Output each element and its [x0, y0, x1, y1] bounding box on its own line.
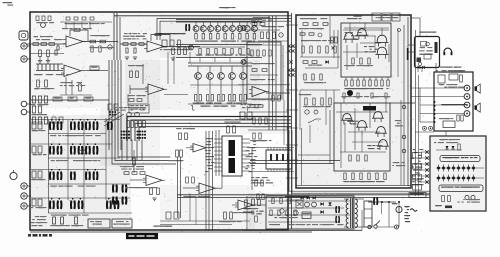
- out label smudge: [164, 226, 168, 227]
- power box bottom buses: [296, 184, 411, 186]
- power transistor group row1 a: [49, 122, 51, 131]
- bank-B emitter resistor pairs: [195, 95, 197, 102]
- power left wires: [300, 56, 340, 58]
- wire border verticals to bus: [289, 130, 430, 191]
- wire grid h6: [48, 212, 132, 214]
- op-amp U2A: [147, 41, 164, 52]
- capacitor pair row3 c: [70, 172, 72, 181]
- psu top text: [315, 195, 317, 196]
- transistor Q23: [377, 47, 387, 54]
- power left resistors: [302, 46, 304, 53]
- mid-right wires: [248, 111, 288, 113]
- wire psu left stub: [246, 196, 248, 230]
- transistors Q11-Q15: [195, 73, 202, 80]
- wire U2A out: [164, 46, 200, 48]
- wire bottom rule: [243, 229, 362, 231]
- resistor R5: [90, 40, 96, 43]
- capacitor C31: [312, 202, 317, 207]
- speaker box bottom connectors: [423, 126, 427, 130]
- input jack J3: [21, 56, 27, 62]
- bank-A emitter resistors: [195, 32, 197, 34]
- module B wires: [340, 103, 342, 168]
- fuse F1: [396, 206, 402, 212]
- wire stubs between boards: [288, 46, 296, 48]
- psu rails: [268, 200, 350, 202]
- IC U5 top parts: [227, 126, 230, 133]
- wire headphone top: [411, 17, 420, 19]
- wire fuse down: [398, 213, 400, 227]
- power inner wires: [300, 89, 340, 91]
- heatsink label box 2: [112, 219, 132, 228]
- module A inner labels: [351, 39, 354, 40]
- power left col extra2: [304, 74, 306, 80]
- wire ch-B input row: [120, 43, 147, 45]
- LED connector X column: [425, 150, 428, 153]
- bus bundle vertical: [108, 60, 110, 150]
- wire grid h5: [31, 197, 130, 199]
- wire U1A output: [83, 41, 118, 43]
- transistor Q22: [377, 35, 387, 42]
- left column parts r1: [32, 122, 36, 129]
- speaker label above box: [443, 67, 445, 68]
- bank-A left caps: [185, 24, 187, 31]
- parts under limiter: [240, 112, 245, 119]
- resistors under ladder: [37, 80, 40, 87]
- parts above U3A: [142, 64, 144, 84]
- op-amp U9: [238, 200, 253, 210]
- psu diodes: [320, 202, 323, 205]
- bank-B drops to bus: [197, 101, 199, 104]
- speaker jack SP2: [464, 94, 470, 100]
- IC U5 outline: [222, 136, 242, 176]
- driver module A box: [341, 23, 391, 77]
- main board bottom scan double line: [30, 231, 312, 233]
- transformer T1 leads: [344, 198, 349, 200]
- transformer T1 core: [350, 198, 352, 228]
- power upper-left parts: [303, 23, 308, 26]
- speaker box left pin column: [434, 101, 436, 103]
- scan tone wash midband: [125, 60, 260, 110]
- wire U3A input: [130, 88, 148, 90]
- resistor R25 vert: [178, 48, 181, 55]
- bus thick bundle to power board: [127, 117, 291, 142]
- scan tone wash led: [431, 137, 485, 210]
- wire U9 wiring: [253, 204, 266, 206]
- wire preamp lower: [30, 53, 64, 55]
- aux jack J5: [21, 109, 27, 115]
- power board right border double line: [407, 17, 409, 186]
- device table boxes: [372, 13, 381, 21]
- resistor R22: [139, 43, 144, 46]
- power transistor group row2 c: [85, 146, 87, 155]
- psu left parts: [252, 199, 255, 206]
- LED bottom parts: [442, 196, 445, 202]
- transistor Q17: [241, 26, 246, 31]
- resistor row E: [124, 172, 129, 175]
- bank-B label smudges: [193, 103, 195, 104]
- driver module B box: [334, 103, 390, 171]
- regulator block: [302, 212, 311, 219]
- scan tone wash bank: [160, 14, 260, 58]
- parts near U8: [186, 177, 189, 183]
- label smudge preamp A: [36, 36, 39, 37]
- wire mid bus: [30, 99, 109, 101]
- psu transistors: [280, 209, 284, 213]
- ch-B label smudges: [129, 33, 132, 34]
- transistor Q20: [345, 33, 354, 40]
- power left row2: [303, 61, 308, 64]
- black relay bar: [363, 106, 376, 111]
- power transistor group row2 a: [49, 146, 51, 155]
- label box VR-C: [84, 97, 93, 101]
- wire headphone feed: [408, 44, 415, 46]
- input jack J2: [21, 43, 27, 49]
- op-amp U8: [199, 183, 215, 194]
- IC U6 outline: [266, 150, 292, 169]
- wire long bus A: [177, 194, 430, 196]
- wire bus mid verticals2: [205, 131, 207, 231]
- mains text column: [405, 221, 408, 222]
- row1 labels: [74, 135, 77, 136]
- bus wires vertical pair top: [113, 13, 115, 60]
- parts right of U1A: [91, 46, 93, 52]
- transistor Q16: [241, 60, 246, 65]
- left block row 2: [32, 106, 35, 113]
- resistor ladder bank: [37, 64, 39, 71]
- note squiggle: [191, 105, 195, 110]
- wire grid h4: [48, 183, 130, 185]
- module A pin resistors: [345, 77, 347, 80]
- wire mains bus: [368, 201, 396, 203]
- main preamp/mixer board outline: [30, 12, 288, 230]
- resistor R1: [33, 43, 39, 46]
- speaker label text row: [444, 104, 447, 105]
- resistor R6: [100, 40, 106, 43]
- wire U2A feedback: [151, 35, 170, 47]
- resistor R23 feedback: [155, 33, 161, 35]
- transistor Q10: [189, 45, 194, 50]
- IC U5 pin labels: [206, 153, 208, 154]
- page number smudge: [5, 2, 8, 3]
- dark dash row: [285, 196, 309, 198]
- power transistor group row2 b: [70, 146, 72, 155]
- parts cluster x55: [52, 117, 56, 123]
- speaker box top parts: [438, 75, 445, 83]
- psu dark cluster left: [243, 208, 245, 209]
- wire ladder top: [36, 63, 63, 65]
- level pot VR1: [10, 172, 17, 179]
- wire bank-B base bus: [190, 84, 245, 86]
- top label smudge: [225, 7, 229, 8]
- power transistor group row4 a: [49, 201, 51, 210]
- node black dot: [347, 90, 353, 96]
- heatsink label box 1: [88, 219, 110, 228]
- power transistor group row1 b: [70, 122, 72, 131]
- speaker box bottom parts: [443, 121, 455, 128]
- output jack J7: [21, 193, 27, 199]
- left block row 3: [32, 117, 35, 124]
- wire ladder bottom: [36, 70, 63, 72]
- capacitor pair mains: [373, 198, 375, 206]
- headphone label above: [425, 32, 428, 33]
- wire speaker feeds: [411, 87, 464, 89]
- transistor Q26: [374, 112, 383, 119]
- wire diag jog: [308, 119, 316, 123]
- IC U6 pins: [267, 148, 269, 151]
- bank-A collector drops: [195, 22, 197, 26]
- mains outlet: [395, 225, 399, 229]
- mid-right parts row3: [253, 133, 255, 139]
- wire module A right: [397, 28, 399, 77]
- capacitors mid column: [112, 185, 114, 193]
- bus verticals below connector: [121, 140, 123, 161]
- scan tone wash preamp: [31, 13, 160, 108]
- top corner parts row: [36, 16, 39, 21]
- transistors Q1-Q9: [193, 26, 199, 32]
- wire U8 wiring: [183, 187, 199, 189]
- module B inner labels: [345, 118, 349, 119]
- power mid parts: [305, 98, 307, 105]
- inner top border line: [114, 15, 291, 17]
- power transistor group row1 c: [85, 122, 87, 131]
- transistor Q24: [343, 114, 352, 121]
- speaker terminal box: [434, 72, 473, 131]
- capacitor C20: [126, 48, 128, 53]
- power transistor group row1 d: [107, 122, 109, 131]
- scan tone wash limiter: [240, 14, 292, 134]
- resistor R2: [41, 43, 47, 46]
- knot diagonal wires: [104, 114, 124, 126]
- connector block P2 on band: [136, 130, 138, 132]
- wire long bus B: [177, 196, 430, 198]
- row4 labels: [73, 215, 77, 216]
- bottom mid wires: [160, 220, 250, 222]
- wire bank-A top bus: [176, 19, 262, 21]
- LED connector stubs: [421, 151, 430, 153]
- LED box top parts: [435, 142, 437, 143]
- label GND box: [90, 66, 99, 70]
- label smudge R5R6: [93, 35, 97, 36]
- op-amp U7: [146, 175, 162, 186]
- bank-A left parts: [162, 40, 167, 47]
- resistor R8 vertical: [47, 50, 50, 57]
- only-for label box: [126, 233, 158, 239]
- LED display board box: [430, 136, 486, 211]
- power transistor group row3 b: [85, 172, 87, 181]
- power transistor group row3 a: [49, 172, 51, 181]
- label smudge mid: [37, 74, 41, 75]
- left dense text block: [38, 222, 41, 223]
- psu resistors row1: [272, 198, 274, 204]
- wire bank-B top buses: [188, 62, 252, 64]
- op-amp U3A: [148, 84, 164, 95]
- label box VR-A: [53, 97, 62, 101]
- row3 labels: [66, 186, 70, 187]
- resistor R24 vert: [172, 48, 175, 55]
- model text PA 300/600: [28, 234, 31, 237]
- LED feed labels: [419, 167, 423, 168]
- lower parts row: [53, 217, 56, 224]
- transformer T1 primary winding: [346, 199, 348, 204]
- power switch S1: [368, 225, 371, 228]
- wire input row: [27, 43, 66, 45]
- resistor R7 vertical: [39, 50, 42, 57]
- module A resistors: [352, 58, 354, 64]
- top parts row 2: [66, 17, 70, 20]
- limiter box: [247, 42, 281, 99]
- scan tone wash corridor: [100, 108, 160, 166]
- parts under U6: [266, 182, 268, 183]
- row2 small circles: [78, 150, 82, 154]
- capacitor C1: [57, 46, 59, 50]
- power scatter parts 1: [343, 93, 345, 98]
- mid vertical wires: [167, 52, 169, 84]
- headphone lower parts: [417, 58, 422, 63]
- scan tone wash psu: [248, 193, 354, 229]
- module B resistors: [349, 155, 351, 161]
- module A rail: [344, 27, 389, 29]
- wire grid h2: [48, 133, 106, 135]
- wire bank-A mid bus: [176, 44, 262, 46]
- LED row1 lamps: [437, 167, 440, 170]
- bank-A second row: [199, 49, 201, 55]
- bank-B collector wires: [197, 66, 199, 73]
- wire U1B feedback net: [65, 77, 67, 95]
- capacitor C30: [305, 202, 310, 207]
- wire grid h1: [31, 119, 120, 121]
- speaker icon 1: [475, 86, 477, 90]
- rectifier block: [364, 201, 372, 227]
- parts near U3B: [272, 95, 274, 101]
- wire bank-A bottom bus: [176, 57, 262, 59]
- bus corner fan wires: [112, 150, 176, 164]
- wire feedback U1A: [70, 30, 88, 42]
- wire around U6: [250, 147, 294, 149]
- left column parts r2: [32, 146, 36, 153]
- scan tone wash power box: [297, 16, 410, 186]
- capacitor C2 vertical: [55, 50, 57, 55]
- LED row2 lamps: [437, 177, 440, 180]
- LED row2 rail: [436, 177, 484, 179]
- output jack J6: [21, 183, 27, 189]
- left column parts r4: [32, 199, 36, 206]
- wire headphone to speaker: [417, 68, 419, 73]
- aux jack J4: [21, 101, 27, 107]
- bank-A drops below: [199, 58, 201, 63]
- power amplifier board outline: [296, 15, 411, 188]
- transformer T1 secondary winding: [355, 199, 357, 204]
- scan tone wash heatsink: [31, 115, 131, 229]
- module A pin labels: [358, 88, 362, 89]
- limiter internals row2: [252, 69, 257, 72]
- psu extra diodes: [301, 197, 304, 200]
- connector block P1 on band: [120, 130, 122, 132]
- bank-A left text: [157, 33, 160, 34]
- LED label strip 1: [440, 156, 480, 162]
- resistor R26 vert: [184, 48, 187, 55]
- wire top corner bus: [157, 19, 291, 41]
- mid connect wires: [147, 95, 149, 104]
- to-led label box: [409, 193, 426, 198]
- wire long bus C: [250, 160, 340, 162]
- wire speaker to led box: [445, 131, 447, 136]
- wire IC verticals: [215, 130, 217, 176]
- label box VR-B: [68, 97, 77, 101]
- IC U5 dark bar lower: [229, 158, 236, 173]
- parts under U7: [150, 188, 153, 195]
- power scatter parts 4: [394, 162, 398, 163]
- power transistor group row4 b: [70, 201, 72, 210]
- power transistor group row4 c: [106, 201, 108, 210]
- transistor Q25: [358, 121, 367, 128]
- wire triple vertical right: [268, 16, 270, 130]
- wire U4 rails: [238, 84, 290, 86]
- IC U5 dark bar upper: [229, 140, 236, 156]
- output jack J8: [21, 203, 27, 209]
- power supply sub-board box: [266, 196, 354, 229]
- parts near U10: [179, 133, 182, 140]
- bank-B emitter wires: [197, 79, 199, 94]
- scan tone wash bottom mid: [160, 185, 255, 231]
- parts near U9: [257, 194, 259, 200]
- wire left of module B: [329, 110, 331, 164]
- headphone jack box: [415, 37, 440, 68]
- IC U5 pins right: [242, 138, 250, 140]
- mid-right parts row1: [250, 105, 255, 107]
- IC U6 inner marks: [270, 154, 272, 161]
- op-amp U1B: [64, 65, 81, 77]
- bank-A label smudges: [215, 41, 217, 42]
- psu label smudges: [307, 224, 309, 225]
- board tick wires: [286, 24, 298, 26]
- speaker jack SP3: [464, 102, 470, 108]
- headphone icon: [444, 48, 452, 52]
- op-amp U4: [252, 87, 266, 97]
- power left col extra1: [300, 33, 305, 35]
- LED row1 rail: [436, 167, 484, 169]
- left column parts r3: [32, 171, 36, 178]
- left block row 1: [32, 96, 35, 103]
- LED label strip 2: [439, 185, 483, 192]
- scan speckle noise: [285, 17, 288, 20]
- power right wires: [403, 25, 405, 185]
- main board right border double line: [291, 13, 293, 229]
- psu resistors row2: [270, 210, 272, 216]
- wire right column verticals: [415, 30, 417, 196]
- limiter internals row: [251, 50, 253, 56]
- row2 labels: [84, 160, 88, 161]
- resistor row under U3A: [129, 99, 134, 102]
- module A left parts: [331, 37, 333, 43]
- IC U5 pins left: [214, 138, 222, 140]
- wire U7 wiring: [130, 179, 146, 181]
- input connector XLR J1: [19, 31, 28, 40]
- bottom mid parts: [224, 212, 227, 219]
- transistor Q28: [379, 140, 388, 147]
- power mid extra parts: [329, 98, 331, 105]
- speaker icon 2: [475, 105, 477, 109]
- module A wires: [349, 23, 351, 33]
- ground sym preamp: [38, 60, 42, 62]
- parts left of band: [108, 104, 112, 110]
- resistor R20: [123, 43, 128, 46]
- module B bottom resistors: [344, 173, 346, 180]
- wire mains verticals: [388, 202, 390, 227]
- wire U1B out: [81, 70, 108, 72]
- dual resistors mid: [176, 150, 179, 157]
- headphone internals: [421, 42, 427, 47]
- capacitor C21: [134, 48, 136, 53]
